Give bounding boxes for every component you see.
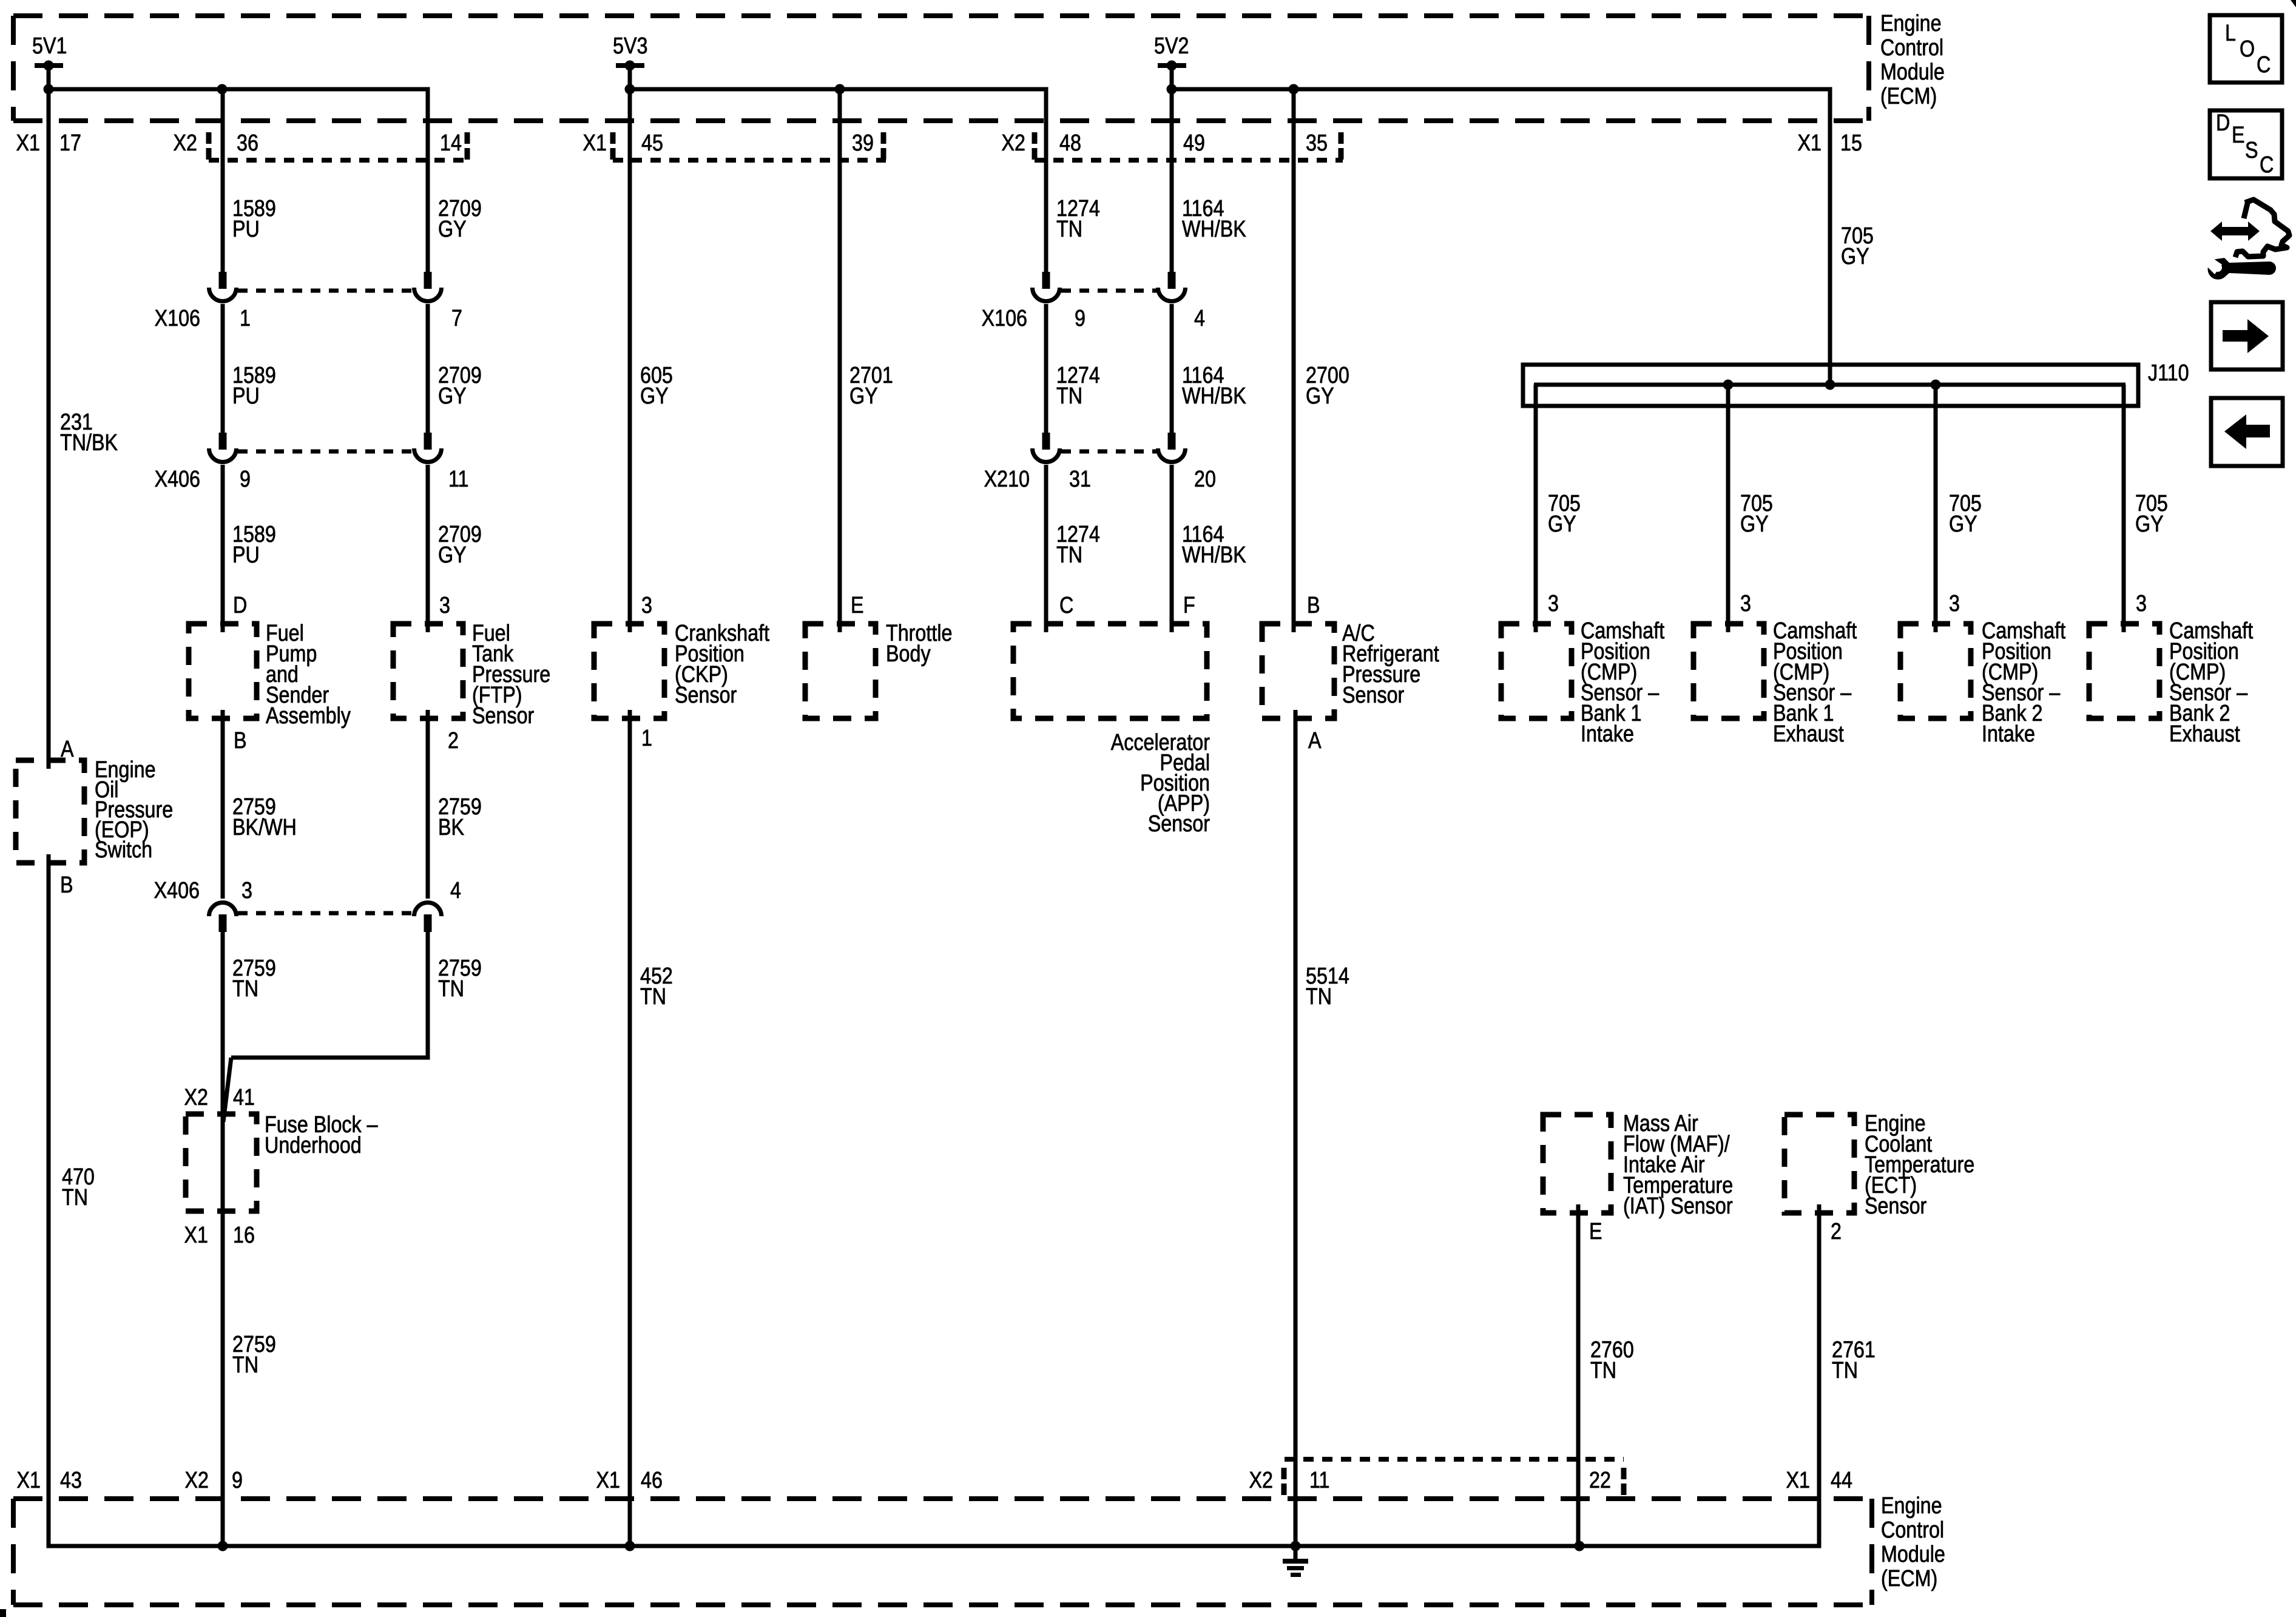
- svg-text:GY: GY: [1841, 244, 1869, 269]
- svg-text:X2: X2: [185, 1468, 209, 1493]
- svg-text:(ECM): (ECM): [1880, 84, 1937, 109]
- pin 46: [641, 1468, 663, 1493]
- connector X106 pin 9 APP: [1033, 272, 1060, 302]
- connector X106 pin 7: [414, 272, 442, 302]
- connector X1 face line: [613, 158, 886, 163]
- wire 705 GY from pin 15 label: [1841, 223, 1874, 269]
- svg-text:C: C: [2257, 52, 2271, 78]
- svg-text:E: E: [2232, 123, 2245, 148]
- icon DESC box: [2210, 110, 2282, 178]
- pin 43: [60, 1468, 82, 1493]
- connector X210 row dashes: [1061, 450, 1157, 454]
- svg-text:16: 16: [233, 1223, 255, 1248]
- wire 5V1 bus to pins 17,36,14: [44, 66, 428, 272]
- svg-text:Intake: Intake: [1982, 721, 2035, 747]
- pin B EOP: [60, 873, 73, 898]
- label Crankshaft Position (CKP) Sensor: [675, 621, 769, 708]
- label X406 row2: [154, 878, 200, 903]
- connector X2 face line: [209, 158, 470, 163]
- wire 2701 GY label: [849, 363, 893, 409]
- pin 48: [1059, 130, 1081, 156]
- wire 2709 GY seg2: [426, 304, 430, 433]
- svg-text:3: 3: [439, 593, 450, 618]
- svg-text:GY: GY: [438, 383, 467, 409]
- svg-text:Underhood: Underhood: [265, 1133, 362, 1158]
- wire 2759 BK label: [438, 794, 482, 840]
- svg-text:22: 22: [1589, 1468, 1611, 1493]
- svg-text:X106: X106: [155, 306, 200, 331]
- svg-text:4: 4: [1194, 306, 1205, 331]
- svg-text:GY: GY: [1740, 511, 1769, 537]
- wire 705 GY CMP1 label: [1548, 491, 1581, 537]
- pin C APP: [1059, 593, 1073, 618]
- label Accelerator Pedal Position (APP) Sensor: [1111, 730, 1210, 837]
- wire 705 GY CMP2: [1726, 385, 1730, 632]
- icon LOC box: [2210, 15, 2282, 83]
- pin X1 label 15: [1798, 130, 1822, 156]
- svg-text:9: 9: [232, 1468, 243, 1493]
- svg-text:X2: X2: [184, 1085, 208, 1110]
- pin 39: [852, 130, 874, 156]
- svg-text:C: C: [1059, 593, 1073, 618]
- svg-text:X1: X1: [184, 1223, 208, 1248]
- wire 705 GY CMP2 label: [1740, 491, 1773, 537]
- icon back arrow box: [2211, 398, 2283, 466]
- connector X210 pin 20: [1158, 433, 1186, 462]
- pin E MAF: [1589, 1219, 1602, 1244]
- svg-text:3: 3: [1548, 591, 1559, 616]
- svg-text:45: 45: [641, 130, 663, 156]
- pin X1 label 45: [583, 130, 607, 156]
- label A/C Refrigerant Pressure Sensor: [1342, 621, 1439, 708]
- svg-text:X1: X1: [596, 1468, 620, 1493]
- svg-text:44: 44: [1831, 1468, 1852, 1493]
- page corner mark bottom left: [0, 1609, 6, 1617]
- wire 1164 WH/BK seg3 label: [1182, 522, 1246, 568]
- label Engine Oil Pressure (EOP) Switch: [95, 757, 173, 863]
- pin F APP: [1183, 593, 1195, 618]
- pin D: [233, 593, 247, 618]
- wire jog into fuse block: [223, 1058, 231, 1122]
- svg-text:(IAT) Sensor: (IAT) Sensor: [1623, 1193, 1733, 1219]
- pin B AC: [1307, 593, 1320, 618]
- svg-text:PU: PU: [232, 383, 260, 409]
- svg-text:TN: TN: [62, 1185, 88, 1210]
- svg-text:X106: X106: [982, 306, 1027, 331]
- wire 2709 GY seg3 label: [438, 522, 482, 568]
- wire 5V3 bus to pins 45,39,48: [625, 66, 1047, 632]
- label Engine Control Module (ECM) top: [1880, 11, 1945, 109]
- wire 1274 TN seg2 label: [1056, 363, 1100, 409]
- connector X106 pin 1: [209, 272, 237, 302]
- pin X2 label: [174, 130, 197, 156]
- pin 3 CMP2: [1740, 591, 1751, 616]
- fuse block underhood box: [186, 1114, 257, 1211]
- svg-text:TN: TN: [640, 984, 666, 1010]
- svg-text:17: 17: [59, 130, 81, 156]
- pin 3 X406: [241, 878, 252, 903]
- connector X406 pin 11: [414, 433, 442, 462]
- connector X2 bottom mark: [1281, 1468, 1287, 1495]
- svg-text:B: B: [60, 873, 73, 898]
- pin 11: [1309, 1468, 1330, 1493]
- svg-text:(ECM): (ECM): [1881, 1566, 1937, 1592]
- connector X106 pin 4 APP: [1158, 272, 1186, 302]
- wire 1164 WH/BK seg2: [1170, 304, 1174, 433]
- svg-text:X2: X2: [1249, 1468, 1273, 1493]
- node 5V3: [613, 33, 647, 71]
- svg-text:Engine: Engine: [1881, 1493, 1942, 1519]
- camshaft position sensor bank1 exhaust box: [1693, 624, 1764, 718]
- icon harness outline: [2235, 200, 2289, 257]
- svg-text:Engine: Engine: [1880, 11, 1942, 36]
- icon wrench: [2206, 257, 2276, 280]
- pin X1 label 44: [1786, 1468, 1810, 1493]
- node 5V2: [1154, 33, 1189, 71]
- mass air flow / intake air temperature sensor box: [1543, 1115, 1611, 1213]
- wire 2709 GY seg1: [438, 196, 482, 242]
- pin 11: [448, 467, 469, 492]
- wire 705 GY CMP4: [2122, 385, 2126, 632]
- svg-text:GY: GY: [1949, 511, 1977, 537]
- wire 2760 TN: [1576, 1204, 1581, 1546]
- wire 1589 PU seg1: [232, 196, 276, 242]
- svg-text:Control: Control: [1880, 35, 1943, 61]
- pin 3 CMP1: [1548, 591, 1559, 616]
- svg-text:9: 9: [240, 467, 251, 492]
- pin E throttle: [851, 593, 864, 618]
- svg-text:D: D: [233, 593, 247, 618]
- svg-text:31: 31: [1069, 467, 1091, 492]
- svg-text:B: B: [1307, 593, 1320, 618]
- svg-text:TN: TN: [1056, 383, 1082, 409]
- pin 35: [1306, 130, 1328, 156]
- page corner mark top right: [2291, 0, 2296, 7]
- svg-text:39: 39: [852, 130, 874, 156]
- throttle body box: [805, 624, 876, 718]
- svg-text:GY: GY: [1548, 511, 1576, 537]
- svg-text:11: 11: [448, 467, 469, 492]
- pin 44: [1831, 1468, 1852, 1493]
- svg-text:Intake: Intake: [1581, 721, 1634, 747]
- wire 2759 TN below fuse label: [232, 1332, 276, 1378]
- ground bus wire inside ECM: [49, 1499, 1819, 1551]
- connector X406 row dashes: [238, 450, 413, 454]
- pin X1 fuse: [184, 1223, 208, 1248]
- pin 3 FTP: [439, 593, 450, 618]
- crankshaft position (CKP) sensor box: [594, 624, 664, 718]
- svg-text:TN: TN: [232, 976, 258, 1002]
- wire 2760 TN label: [1590, 1337, 1634, 1383]
- pin 9: [240, 467, 251, 492]
- svg-text:BK/WH: BK/WH: [232, 815, 297, 840]
- pin 49: [1183, 130, 1205, 156]
- svg-text:5V3: 5V3: [613, 33, 647, 59]
- svg-text:20: 20: [1194, 467, 1216, 492]
- wire 1589 PU seg2: [221, 304, 225, 433]
- svg-text:Switch: Switch: [95, 837, 152, 863]
- label X106 APP: [982, 306, 1027, 331]
- pin 3 CMP4: [2136, 591, 2147, 616]
- icon harness double arrow: [2210, 221, 2260, 241]
- svg-text:BK: BK: [438, 815, 465, 840]
- svg-text:4: 4: [450, 878, 461, 903]
- camshaft position sensor bank1 intake box: [1501, 624, 1572, 718]
- label X406: [155, 467, 200, 492]
- svg-text:B: B: [234, 728, 247, 754]
- connector X106 row dashes: [238, 289, 413, 293]
- svg-text:Sensor: Sensor: [1342, 683, 1405, 708]
- pin 1 CKP: [641, 726, 652, 751]
- wire 2709 GY seg3: [426, 465, 430, 632]
- svg-text:X1: X1: [1786, 1468, 1810, 1493]
- engine coolant temperature sensor box: [1784, 1115, 1854, 1213]
- wire 231 TN/BK: [47, 89, 51, 769]
- pin 4 APP: [1194, 306, 1205, 331]
- svg-text:Module: Module: [1881, 1542, 1945, 1567]
- label MAF IAT Sensor: [1623, 1111, 1733, 1219]
- wire 705 GY CMP4 label: [2135, 491, 2168, 537]
- A/C refrigerant pressure sensor box: [1262, 624, 1334, 718]
- svg-text:GY: GY: [849, 383, 878, 409]
- wire 2759 BK/WH label: [232, 794, 297, 840]
- camshaft position sensor bank2 exhaust box: [2089, 624, 2159, 718]
- wire 1274 TN seg2: [1044, 304, 1048, 433]
- wire 1164 WH/BK seg1: [1182, 196, 1246, 242]
- wire 705 GY CMP1: [1534, 385, 1538, 632]
- label X210: [984, 467, 1030, 492]
- splice pack J110: [1523, 365, 2138, 406]
- wire 1274 TN seg3: [1044, 465, 1048, 632]
- label Fuse Block Underhood: [265, 1112, 378, 1158]
- svg-text:GY: GY: [1306, 383, 1334, 409]
- pin 9 APP: [1075, 306, 1086, 331]
- svg-text:TN: TN: [1832, 1358, 1858, 1383]
- pin 4 X406: [450, 878, 461, 903]
- connector X406 pin 4: [414, 903, 442, 932]
- svg-text:X1: X1: [17, 1468, 41, 1493]
- svg-text:X210: X210: [984, 467, 1030, 492]
- Engine Control Module (ECM) bottom dashed box: [13, 1499, 1872, 1605]
- wire 2759 TN left: [221, 930, 225, 1546]
- fuel pump and sender assembly box: [189, 624, 257, 718]
- svg-text:GY: GY: [640, 383, 669, 409]
- label ECT Sensor: [1865, 1111, 1974, 1219]
- pin 14: [440, 130, 462, 156]
- svg-text:S: S: [2245, 138, 2258, 163]
- connector X2b face line: [1035, 158, 1343, 163]
- svg-text:X1: X1: [583, 130, 607, 156]
- wire 705 GY CMP3: [1934, 385, 1938, 632]
- pin B fuel pump: [234, 728, 247, 754]
- wire 605 GY label: [640, 363, 673, 409]
- wire 705 GY CMP3 label: [1949, 491, 1982, 537]
- connector X406 pin 9: [209, 433, 237, 462]
- svg-text:D: D: [2216, 110, 2230, 136]
- connector X406 row2 dashes: [238, 911, 413, 916]
- pin 9 bottom: [232, 1468, 243, 1493]
- connector X210 pin 31: [1033, 433, 1060, 462]
- Engine Control Module (ECM) top dashed box: [13, 16, 1869, 121]
- svg-text:36: 36: [237, 130, 258, 156]
- svg-text:41: 41: [233, 1085, 255, 1110]
- svg-text:Module: Module: [1880, 59, 1945, 85]
- label CMP Bank 1 Exhaust: [1773, 618, 1857, 747]
- label Throttle Body: [886, 621, 952, 667]
- svg-text:3: 3: [641, 593, 652, 618]
- wire 2759 TN left label: [232, 956, 276, 1002]
- connector X2 mark right: [465, 132, 470, 160]
- wire 1274 TN seg1: [1056, 196, 1100, 242]
- svg-text:PU: PU: [232, 542, 260, 568]
- label X106: [155, 306, 200, 331]
- connector X106 row2 dashes: [1061, 289, 1157, 293]
- svg-text:46: 46: [641, 1468, 663, 1493]
- wire 2700 GY label: [1306, 363, 1349, 409]
- pin X1 label: [16, 130, 40, 156]
- connector X1 mark right: [881, 132, 886, 160]
- ground: [1283, 1546, 1308, 1577]
- pin 41 fuse: [233, 1085, 255, 1110]
- svg-text:1: 1: [240, 306, 251, 331]
- svg-text:TN: TN: [1590, 1358, 1616, 1383]
- pin X1 label 46: [596, 1468, 620, 1493]
- camshaft position sensor bank2 intake box: [1900, 624, 1971, 718]
- svg-text:9: 9: [1075, 306, 1086, 331]
- svg-text:43: 43: [60, 1468, 82, 1493]
- pin 36: [237, 130, 258, 156]
- pin 2 ECT: [1831, 1219, 1842, 1244]
- wire 231 TN/BK label: [60, 410, 118, 456]
- svg-text:3: 3: [1740, 591, 1751, 616]
- pin 45: [641, 130, 663, 156]
- wire 2761 TN: [1817, 1204, 1822, 1546]
- svg-text:11: 11: [1309, 1468, 1330, 1493]
- svg-text:3: 3: [2136, 591, 2147, 616]
- connector X2 bottom face line: [1285, 1457, 1624, 1462]
- svg-text:TN: TN: [1056, 217, 1082, 242]
- svg-text:Exhaust: Exhaust: [1773, 721, 1844, 747]
- pin 22: [1589, 1468, 1611, 1493]
- connector X2b mark right: [1339, 132, 1344, 160]
- svg-text:J110: J110: [2148, 360, 2189, 386]
- svg-text:7: 7: [451, 306, 462, 331]
- wire 2759 BK/WH: [221, 710, 225, 899]
- svg-text:3: 3: [1949, 591, 1960, 616]
- svg-text:C: C: [2260, 152, 2274, 178]
- svg-text:X1: X1: [16, 130, 40, 156]
- svg-text:15: 15: [1840, 130, 1862, 156]
- engine oil pressure switch box: [16, 760, 84, 863]
- svg-text:3: 3: [241, 878, 252, 903]
- svg-text:TN: TN: [1056, 542, 1082, 568]
- svg-text:Sensor: Sensor: [472, 703, 535, 729]
- svg-text:X2: X2: [1002, 130, 1025, 156]
- svg-text:WH/BK: WH/BK: [1182, 383, 1246, 409]
- svg-text:5V1: 5V1: [32, 33, 67, 59]
- svg-text:E: E: [1589, 1219, 1602, 1244]
- wire 5514 TN: [1294, 710, 1298, 1546]
- label Fuel Pump and Sender Assembly: [266, 621, 351, 729]
- svg-text:X406: X406: [155, 467, 200, 492]
- svg-text:Assembly: Assembly: [266, 703, 351, 729]
- label Engine Control Module (ECM) bottom: [1881, 1493, 1945, 1592]
- svg-text:5V2: 5V2: [1154, 33, 1189, 59]
- connector X406 pin 3: [209, 903, 237, 932]
- wire 1589 PU seg3 label: [232, 522, 276, 568]
- wire 452 TN: [628, 710, 632, 1546]
- pin X1 label 43: [17, 1468, 41, 1493]
- svg-text:49: 49: [1183, 130, 1205, 156]
- svg-text:F: F: [1183, 593, 1195, 618]
- pin 17: [59, 130, 81, 156]
- pin 16 fuse: [233, 1223, 255, 1248]
- wire 470 TN label: [62, 1164, 95, 1210]
- pin X2 label 11: [1249, 1468, 1273, 1493]
- connector X1 mark: [610, 132, 616, 160]
- svg-text:TN: TN: [232, 1352, 258, 1378]
- pin X2 label 9: [185, 1468, 209, 1493]
- fuel tank pressure sensor box: [393, 624, 463, 718]
- svg-text:WH/BK: WH/BK: [1182, 217, 1246, 242]
- accelerator pedal position (APP) sensor box: [1013, 624, 1207, 718]
- wire 2759 TN right label: [438, 956, 482, 1002]
- label CMP Bank 2 Intake: [1982, 618, 2065, 747]
- label CMP Bank 2 Exhaust: [2169, 618, 2253, 747]
- pin 20: [1194, 467, 1216, 492]
- label Fuel Tank Pressure (FTP) Sensor: [472, 621, 550, 729]
- wire 2709 GY seg2 label: [438, 363, 482, 409]
- svg-text:E: E: [851, 593, 864, 618]
- svg-text:Body: Body: [886, 641, 931, 667]
- svg-text:TN/BK: TN/BK: [60, 430, 118, 456]
- pin A EOP: [61, 737, 74, 762]
- pin X2 label 48: [1002, 130, 1025, 156]
- svg-text:Exhaust: Exhaust: [2169, 721, 2240, 747]
- svg-text:Sensor: Sensor: [1148, 811, 1210, 837]
- svg-text:X2: X2: [174, 130, 197, 156]
- svg-text:14: 14: [440, 130, 462, 156]
- svg-text:48: 48: [1059, 130, 1081, 156]
- wire 5514 TN label: [1306, 964, 1349, 1010]
- pin 7: [451, 306, 462, 331]
- wire 2761 TN label: [1832, 1337, 1876, 1383]
- pin 15: [1840, 130, 1862, 156]
- pin X2 fuse: [184, 1085, 208, 1110]
- pin 31: [1069, 467, 1091, 492]
- wire 1589 PU seg3: [221, 465, 225, 632]
- wire 1164 WH/BK seg3: [1170, 465, 1174, 632]
- wire 1164 WH/BK seg2 label: [1182, 363, 1246, 409]
- svg-text:2: 2: [448, 728, 459, 754]
- svg-text:35: 35: [1306, 130, 1328, 156]
- pin A AC: [1308, 728, 1322, 754]
- svg-text:2: 2: [1831, 1219, 1842, 1244]
- wire 2759 BK: [426, 710, 430, 899]
- svg-text:X406: X406: [154, 878, 200, 903]
- wire 1589 PU seg2 label: [232, 363, 276, 409]
- svg-text:GY: GY: [2135, 511, 2164, 537]
- svg-text:O: O: [2240, 36, 2255, 62]
- wire 5V2 bus to pins 49,35,15: [1167, 66, 1831, 632]
- node 5V1: [32, 33, 67, 71]
- connector X2 mark: [206, 132, 212, 160]
- svg-text:GY: GY: [438, 542, 467, 568]
- pin 2 FTP: [448, 728, 459, 754]
- label J110: [2148, 360, 2189, 386]
- svg-text:TN: TN: [438, 976, 464, 1002]
- wire 2759 TN right with bend: [231, 930, 428, 1058]
